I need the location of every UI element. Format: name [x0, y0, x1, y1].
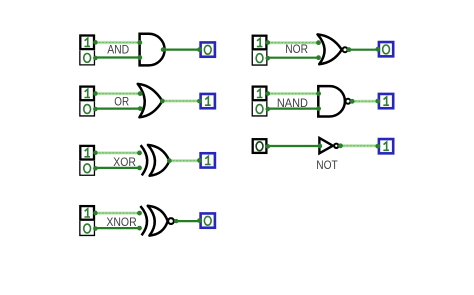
svg-text:XNOR: XNOR	[106, 215, 136, 229]
svg-text:NAND: NAND	[277, 96, 308, 110]
svg-text:NOR: NOR	[285, 42, 308, 56]
svg-text:AND: AND	[107, 43, 129, 57]
svg-text:OR: OR	[114, 95, 129, 109]
svg-text:NOT: NOT	[316, 158, 338, 172]
svg-text:XOR: XOR	[113, 155, 136, 169]
